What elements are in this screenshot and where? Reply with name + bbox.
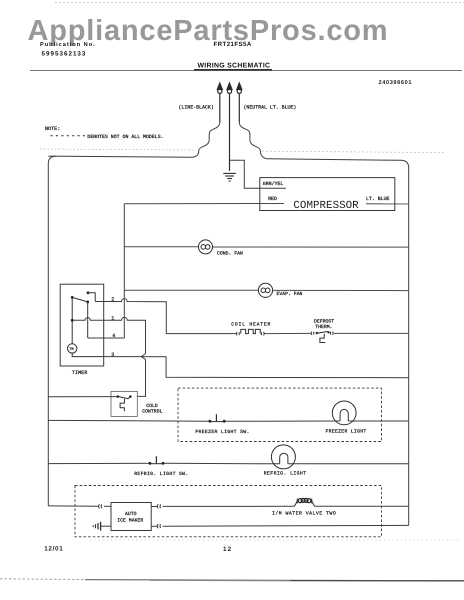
- wire evap fan rung: [124, 289, 408, 291]
- evap fan motor: [258, 283, 272, 297]
- svg-text:WIRING SCHEMATIC: WIRING SCHEMATIC: [198, 63, 271, 70]
- i/m water valve solenoid: [295, 498, 315, 506]
- wire lt. blue (compressor to right bus): [366, 203, 409, 205]
- wire refrig light rung: [48, 462, 408, 465]
- wire cond fan rung: [124, 246, 408, 248]
- cord arrow neutral: [236, 82, 242, 122]
- compressor box U1: [260, 178, 395, 211]
- bottom page tear line: [0, 579, 464, 581]
- watermark AppliancePartsPros.com: [28, 15, 389, 47]
- enclosure outline right bump (neutral side): [239, 122, 400, 160]
- svg-text:FREEZER LIGHT: FREEZER LIGHT: [326, 428, 367, 434]
- freezer light lamp: [332, 401, 356, 425]
- wire ground to ice maker box: [101, 525, 111, 527]
- svg-text:COIL HEATER: COIL HEATER: [231, 322, 271, 328]
- timer pole wire C down to TM: [71, 297, 73, 343]
- wire terminal 3 to lower-right rung: [104, 357, 409, 378]
- timer pivot C: [71, 296, 74, 299]
- svg-text:I/M WATER VALVE TWO: I/M WATER VALVE TWO: [272, 510, 336, 516]
- cold control switch: [117, 395, 132, 411]
- svg-text:(NEUTRAL LT. BLUE): (NEUTRAL LT. BLUE): [244, 105, 297, 111]
- header publication block: [40, 41, 252, 58]
- svg-text:(LINE-BLACK): (LINE-BLACK): [179, 105, 214, 111]
- timer node E on terminal 1 wire: [71, 319, 74, 322]
- svg-text:AUTO: AUTO: [125, 511, 137, 517]
- timer contact D (to terminal 4): [86, 301, 89, 304]
- svg-text:Publication No.: Publication No.: [40, 41, 96, 48]
- svg-text:240398601: 240398601: [379, 80, 413, 86]
- enclosure top-right rounded corner + right bus: [401, 160, 409, 525]
- wire freezer light rung (left bus to right bus): [48, 419, 408, 422]
- freezer compartment dashed box: [178, 388, 382, 441]
- wire left bus bottom corner to ice maker: [48, 505, 111, 508]
- svg-text:DENOTES NOT ON ALL MODELS.: DENOTES NOT ON ALL MODELS.: [87, 134, 163, 140]
- svg-text:EVAP. FAN: EVAP. FAN: [277, 291, 303, 297]
- cord arrow ground wire: [227, 82, 233, 171]
- svg-text:FRT21FS5A: FRT21FS5A: [214, 41, 252, 48]
- svg-text:COLD: COLD: [146, 403, 158, 409]
- connector upper output: [157, 504, 160, 508]
- faint scan line above outline: [40, 149, 193, 150]
- refrig light lamp: [271, 445, 295, 469]
- wire TM to terminal 3: [72, 353, 104, 357]
- wire defrost therm to right bus: [334, 332, 409, 334]
- cord arrow line-black: [217, 82, 223, 122]
- wire grn/yel branch: [230, 160, 287, 188]
- wire between coil heater and defrost therm: [265, 332, 312, 334]
- wire terminal 2 with hop over bus, to coil heater rung: [95, 299, 236, 334]
- svg-text:GRN/YEL: GRN/YEL: [263, 181, 284, 187]
- timer switch arm: [72, 297, 88, 302]
- cond fan motor: [199, 240, 213, 254]
- svg-text:REFRIG. LIGHT SW.: REFRIG. LIGHT SW.: [134, 471, 188, 477]
- timer contact B (to terminal 2): [87, 291, 90, 294]
- svg-text:COND. FAN: COND. FAN: [217, 251, 243, 257]
- note text: [45, 126, 164, 140]
- svg-text:5995362133: 5995362133: [42, 50, 87, 57]
- main bus vertical (timer feed): [123, 204, 125, 338]
- top scan speckle line: [55, 2, 464, 4]
- svg-text:TM: TM: [69, 347, 73, 352]
- wire terminal 4 (bus to timer): [88, 337, 125, 339]
- svg-text:LT. BLUE: LT. BLUE: [366, 196, 390, 202]
- svg-text:TIMER: TIMER: [72, 370, 88, 376]
- enclosure outline left bump (line side): [48, 122, 220, 157]
- junction arrow at terminal-3 crossing: [141, 354, 145, 360]
- freezer light switch: [209, 414, 226, 422]
- svg-text:DEFROST: DEFROST: [314, 318, 334, 324]
- svg-text:FREEZER LIGHT SW.: FREEZER LIGHT SW.: [195, 429, 249, 435]
- title WIRING SCHEMATIC: [30, 63, 462, 71]
- svg-text:ICE MAKER: ICE MAKER: [117, 518, 143, 524]
- svg-text:12/01: 12/01: [44, 545, 63, 552]
- svg-text:COMPRESSOR: COMPRESSOR: [293, 200, 359, 212]
- wire terminal 1 with hops, down to cold control: [74, 317, 146, 396]
- timer motor TM: [68, 344, 77, 353]
- footer scan speckle row: [90, 539, 460, 541]
- wire red (bus corner to compressor): [124, 203, 284, 205]
- svg-text:REFRIG. LIGHT: REFRIG. LIGHT: [264, 471, 307, 477]
- svg-text:NOTE:: NOTE:: [45, 126, 60, 132]
- auto ice maker box: [111, 503, 151, 531]
- wire ice maker upper output to right bus: [151, 505, 409, 507]
- connector lower output: [157, 524, 160, 528]
- ice maker compartment dashed box: [75, 486, 382, 537]
- refrig light switch: [149, 456, 165, 464]
- cold control box: [111, 391, 137, 416]
- svg-text:THERM.: THERM.: [315, 324, 332, 330]
- svg-text:CONTROL: CONTROL: [142, 409, 162, 415]
- timer box: [60, 284, 103, 366]
- wire left bus to cold control: [48, 396, 118, 398]
- wire ice maker lower output to right bus corner: [151, 524, 409, 527]
- defrost thermostat: [311, 331, 333, 342]
- enclosure top-left rounded corner + left bus: [48, 156, 56, 506]
- coil heater R1: [237, 329, 265, 335]
- svg-text:12: 12: [223, 546, 232, 553]
- svg-text:RED: RED: [268, 196, 277, 202]
- ice maker chassis ground: [93, 522, 100, 531]
- ground symbol: [223, 173, 236, 181]
- connector on ice maker input: [99, 504, 102, 508]
